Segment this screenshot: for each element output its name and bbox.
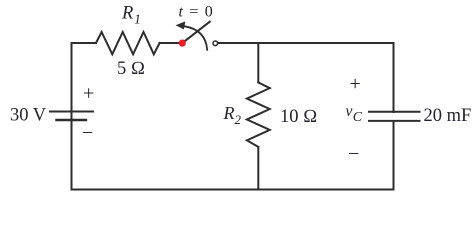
svg-text:20 mF: 20 mF — [424, 106, 472, 126]
capacitor C1 bottom plate — [369, 120, 420, 122]
wire: right side below capacitor — [393, 121, 395, 190]
svg-text:t = 0: t = 0 — [179, 4, 214, 21]
wire: R2 branch upper lead — [257, 43, 259, 82]
svg-text:5 Ω: 5 Ω — [117, 59, 145, 79]
wire: switch to top-right corner — [218, 42, 394, 44]
switch SW1 motion arc — [184, 26, 207, 50]
switch SW1 closed contact (red dot) — [179, 40, 186, 47]
wire: bottom segment — [72, 189, 394, 191]
switch SW1 blade — [182, 22, 210, 43]
svg-text:+: + — [83, 83, 94, 105]
switch SW1 open terminal — [213, 41, 218, 46]
svg-text:−: − — [348, 143, 359, 165]
svg-text:−: − — [82, 122, 93, 144]
switch SW1 arrowhead — [176, 21, 186, 29]
wire: left side vertical through battery — [71, 43, 73, 190]
svg-text:10 Ω: 10 Ω — [280, 107, 317, 127]
svg-text:vC: vC — [346, 103, 363, 125]
wire: right side above capacitor — [393, 43, 395, 112]
resistor R2 — [247, 82, 270, 146]
svg-text:R1: R1 — [121, 4, 141, 27]
capacitor C1 top plate — [369, 111, 420, 113]
wire: top-left segment from left corner to R1 — [72, 42, 97, 44]
wire: R2 branch lower lead — [257, 147, 259, 190]
wire: R1 to switch contact — [160, 42, 181, 44]
battery V1 short (negative) plate — [57, 119, 87, 121]
svg-text:+: + — [350, 73, 361, 95]
svg-text:30 V: 30 V — [10, 106, 47, 126]
battery V1 long (positive) plate — [50, 111, 93, 113]
resistor R1 — [96, 32, 160, 54]
svg-text:R2: R2 — [223, 103, 242, 127]
